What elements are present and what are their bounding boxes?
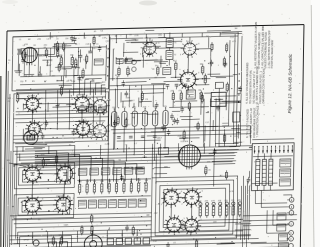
svg-text:Figure 12. NA-6B Schematic: Figure 12. NA-6B Schematic: [287, 53, 293, 113]
svg-text:C1: C1: [96, 44, 99, 46]
svg-text:4.7K: 4.7K: [230, 191, 235, 193]
svg-text:47K: 47K: [59, 55, 63, 57]
svg-text:100K: 100K: [64, 225, 69, 227]
svg-text:C2: C2: [50, 71, 53, 73]
svg-text:V10 6F6: V10 6F6: [181, 141, 189, 143]
svg-text:R2: R2: [28, 39, 31, 41]
svg-text:2.2K: 2.2K: [178, 136, 183, 138]
svg-text:T1: T1: [174, 42, 176, 44]
svg-text:100K: 100K: [125, 97, 130, 99]
svg-text:C1: C1: [19, 39, 22, 41]
svg-text:T2: T2: [174, 54, 176, 56]
svg-text:1M: 1M: [234, 28, 237, 30]
svg-text:1M: 1M: [198, 90, 201, 92]
svg-text:2.2K: 2.2K: [71, 81, 76, 83]
svg-text:SPKR: SPKR: [24, 239, 30, 241]
svg-text:1M: 1M: [95, 129, 98, 131]
svg-text:7. PRODUCTION CHANGE 2.: 7. PRODUCTION CHANGE 2.: [255, 102, 260, 137]
svg-text:2.2M: 2.2M: [105, 144, 110, 146]
svg-text:C7: C7: [84, 38, 87, 40]
svg-text:5W: 5W: [58, 235, 61, 237]
svg-text:C7: C7: [65, 44, 68, 46]
svg-text:1M: 1M: [201, 107, 204, 109]
svg-text:(MAXIMUM CCW ROTATION).: (MAXIMUM CCW ROTATION).: [261, 68, 266, 104]
svg-text:2.2K: 2.2K: [85, 44, 90, 46]
svg-text:2.2K: 2.2K: [102, 37, 107, 39]
svg-text:2.2M: 2.2M: [142, 157, 147, 159]
svg-text:10K: 10K: [70, 55, 74, 57]
svg-text:4.7K: 4.7K: [134, 35, 139, 37]
svg-text:C1: C1: [80, 80, 83, 82]
svg-text:.01: .01: [56, 38, 59, 40]
svg-text:1M: 1M: [139, 102, 142, 104]
svg-text:6SK7: 6SK7: [130, 100, 136, 102]
svg-text:POSITION, REAR VIEW: POSITION, REAR VIEW: [270, 39, 274, 68]
